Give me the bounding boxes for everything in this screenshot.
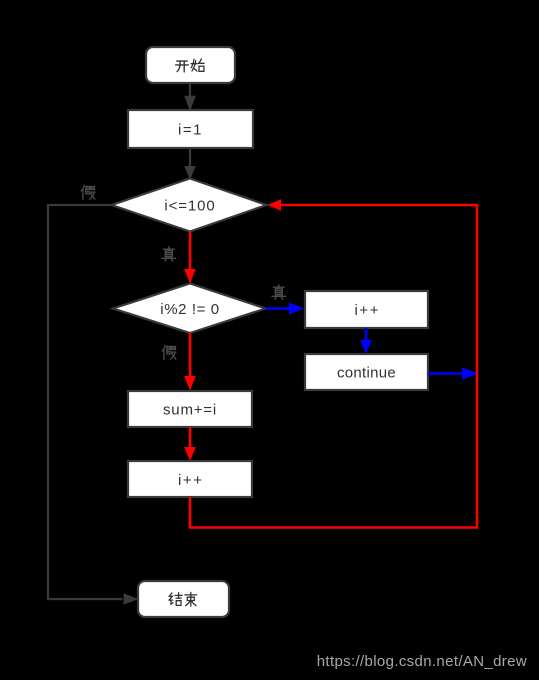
blue arrowhead into i++ right [289,302,304,314]
blue wire continue to red loop [428,372,464,375]
red wire sum to i++ bottom [189,427,192,448]
decision diamond i<=100 [112,179,267,232]
wire false path to end [48,205,123,599]
arrowhead into end box [124,593,139,605]
node i++ bottom [128,461,252,497]
label 假 left [81,186,95,200]
red wire decision1 to decision2 [189,232,192,271]
blue wire i++ to continue [365,328,368,341]
blue arrowhead into continue [360,340,372,354]
node i++ right [305,291,428,328]
node start box (开始) [146,47,235,83]
text 结束 [169,592,197,606]
node continue [305,354,428,390]
svg-text:sum+=i: sum+=i [163,401,217,418]
label 真 right of decision2 [272,285,286,299]
node end box (结束) [138,581,229,617]
red wire decision2 to sum box [189,333,192,377]
red arrowhead into decision1 right vertex [268,199,282,211]
svg-text:i++: i++ [354,302,380,319]
red arrowhead into i++ bottom [184,447,196,461]
svg-text:https://blog.csdn.net/AN_drew: https://blog.csdn.net/AN_drew [317,653,527,670]
arrowhead into decision1 [184,166,196,180]
text 开始 [176,59,204,72]
blue arrowhead at red loop [462,367,479,379]
svg-text:i++: i++ [178,472,204,489]
node i=1 [128,110,253,148]
wire i=1 to decision1 [189,148,191,167]
svg-text:i<=100: i<=100 [164,197,215,214]
red arrowhead into decision2 [184,269,196,284]
red loop wire i++ bottom back to decision1 [190,205,477,528]
decision diamond i%2 != 0 [113,284,266,334]
svg-text:continue: continue [337,364,396,381]
blue wire decision2 to i++ right [266,307,291,310]
node sum+=i [128,391,252,427]
label 假 below decision2 [162,346,176,360]
red arrowhead into sum box [184,376,196,391]
wire start to i=1 [189,83,191,97]
arrowhead into i=1 [184,96,196,111]
label 真 below decision1 [162,247,176,261]
svg-text:i%2 != 0: i%2 != 0 [160,301,219,318]
svg-text:i=1: i=1 [178,122,203,139]
